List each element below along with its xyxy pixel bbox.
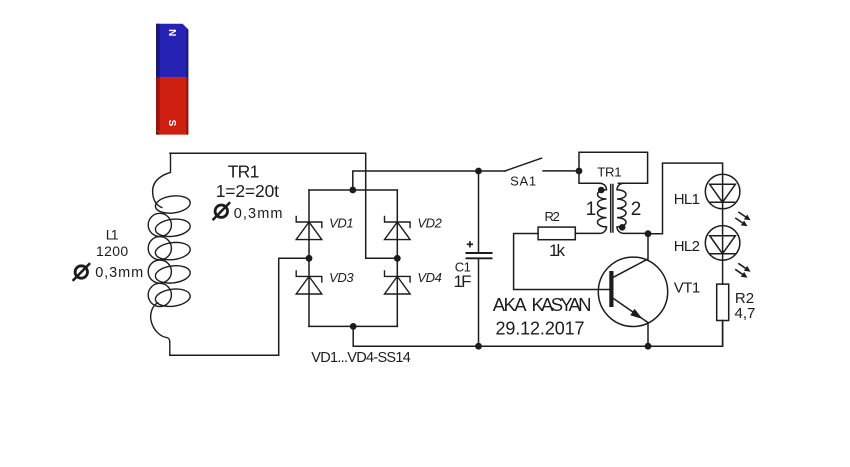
svg-text:KASYAN: KASYAN bbox=[532, 294, 592, 315]
svg-text:VD1: VD1 bbox=[329, 216, 353, 231]
svg-text:VT1: VT1 bbox=[674, 280, 700, 297]
svg-text:VD3: VD3 bbox=[329, 270, 354, 285]
svg-text:L1: L1 bbox=[106, 227, 119, 243]
svg-text:1F: 1F bbox=[454, 272, 472, 291]
svg-text:N: N bbox=[166, 29, 177, 36]
svg-text:AKA: AKA bbox=[493, 294, 528, 315]
svg-text:2: 2 bbox=[631, 199, 642, 220]
svg-text:VD4: VD4 bbox=[417, 270, 441, 285]
svg-text:SA1: SA1 bbox=[510, 174, 536, 189]
svg-text:TR1: TR1 bbox=[597, 165, 621, 180]
svg-text:S: S bbox=[166, 120, 177, 127]
svg-text:HL1: HL1 bbox=[674, 191, 700, 208]
svg-text:1=2=20t: 1=2=20t bbox=[216, 181, 279, 201]
svg-text:HL2: HL2 bbox=[674, 238, 700, 255]
svg-text:1: 1 bbox=[586, 199, 597, 220]
svg-text:4,7: 4,7 bbox=[735, 305, 756, 322]
svg-text:TR1: TR1 bbox=[228, 162, 259, 182]
svg-text:1200: 1200 bbox=[96, 243, 128, 259]
svg-text:1k: 1k bbox=[549, 241, 566, 260]
svg-text:0,3mm: 0,3mm bbox=[95, 265, 143, 281]
svg-text:29.12.2017: 29.12.2017 bbox=[496, 319, 585, 339]
svg-text:0,3mm: 0,3mm bbox=[234, 206, 283, 222]
svg-text:VD1...VD4-SS14: VD1...VD4-SS14 bbox=[311, 350, 411, 366]
svg-text:VD2: VD2 bbox=[417, 216, 442, 231]
svg-text:R2: R2 bbox=[545, 209, 560, 224]
